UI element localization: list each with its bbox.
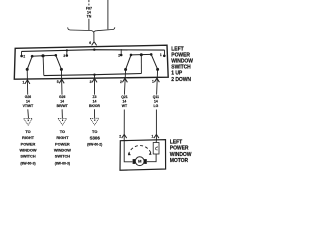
svg-text:Z3: Z3 <box>93 95 97 99</box>
wire pin 1 down to motor <box>156 69 157 139</box>
svg-text:VT/WT: VT/WT <box>23 104 34 108</box>
svg-text:RIGHT: RIGHT <box>56 135 69 140</box>
off-page triangle to right switch <box>58 118 67 125</box>
svg-text:TO: TO <box>92 129 97 134</box>
left power window motor box <box>120 140 166 171</box>
svg-text:6: 6 <box>89 41 91 45</box>
pivot B <box>60 68 63 71</box>
svg-text:LG: LG <box>154 104 159 108</box>
label F87 14 TN <box>86 6 92 18</box>
label Q11 14 LG <box>153 95 159 108</box>
svg-text:14: 14 <box>123 100 127 104</box>
switch blade C <box>126 55 131 70</box>
contact dot left (position 2) <box>20 55 23 58</box>
contact dot <box>55 54 58 57</box>
svg-text:SWITCH: SWITCH <box>171 65 191 71</box>
wire bus right end drop <box>163 50 165 54</box>
svg-text:WINDOW: WINDOW <box>54 148 71 153</box>
svg-text:2: 2 <box>118 54 120 58</box>
wire motor lead right <box>147 154 156 162</box>
label Q21 14 WT <box>121 95 128 108</box>
svg-text:2: 2 <box>119 135 121 139</box>
pivot D <box>156 68 159 71</box>
connector arrow pin 2 <box>122 78 127 82</box>
svg-text:MOTOR: MOTOR <box>170 158 189 164</box>
switch blade D <box>151 54 157 69</box>
label TO S306 (8W-60-2) <box>87 129 102 147</box>
wire left contact row <box>31 55 56 56</box>
wire pin 5 down <box>61 69 62 118</box>
svg-text:3: 3 <box>63 54 65 58</box>
wire pin 3 down (ground) <box>94 75 96 119</box>
connector arrow pin 5 <box>59 79 64 83</box>
rotation arc (dashed, double arrow) <box>128 146 151 155</box>
contact dot <box>31 55 34 58</box>
svg-text:2 DOWN: 2 DOWN <box>171 77 191 83</box>
brush right <box>144 159 147 164</box>
svg-text:1: 1 <box>23 81 25 85</box>
label TO RIGHT POWER WINDOW SWITCH (8W-60-3) <box>19 129 36 166</box>
wire brace stem to switch <box>93 32 95 41</box>
svg-text:BR/WT: BR/WT <box>57 104 69 108</box>
label TO RIGHT POWER WINDOW SWITCH (8W-60-3) <box>54 129 71 166</box>
svg-text:WT: WT <box>122 104 128 108</box>
motor M1 <box>135 157 144 166</box>
connector arrow pin 1 <box>25 80 30 84</box>
svg-text:LEFT: LEFT <box>171 46 183 52</box>
circuit breaker in motor <box>155 140 157 143</box>
svg-text:M: M <box>138 159 142 164</box>
svg-text:3: 3 <box>90 80 92 84</box>
node bus junction above contact 3 <box>66 49 68 51</box>
contact dot <box>150 53 153 56</box>
svg-text:WINDOW: WINDOW <box>19 148 36 153</box>
contact dot 3 <box>66 54 69 57</box>
contact dot (center with riser) <box>41 54 44 57</box>
label LEFT POWER WINDOW SWITCH 1 UP 2 DOWN <box>171 46 193 83</box>
node feed junction on bus <box>93 49 95 51</box>
svg-text:POWER: POWER <box>171 52 190 58</box>
svg-text:(8W-60-3): (8W-60-3) <box>20 161 35 165</box>
off-page triangle to splice <box>90 118 99 125</box>
connector arrow pin 1 <box>154 78 159 82</box>
switch blade B <box>56 55 62 69</box>
svg-text:RIGHT: RIGHT <box>22 135 35 140</box>
contact dot (center with riser) <box>140 53 143 56</box>
wire (solid, top right) <box>107 0 109 29</box>
label G26 14 BR/WT <box>57 95 69 108</box>
contact dot <box>130 54 133 57</box>
label G26 14 VT/WT <box>23 95 34 108</box>
wire riser left to ground rail <box>42 56 45 76</box>
svg-text:BK/OR: BK/OR <box>89 104 100 108</box>
svg-text:1: 1 <box>152 80 154 84</box>
ground rail wire <box>44 74 142 76</box>
svg-text:G26: G26 <box>59 95 66 99</box>
svg-text:WINDOW: WINDOW <box>170 152 192 158</box>
svg-text:TO: TO <box>25 129 30 134</box>
brush left <box>133 159 136 164</box>
svg-text:Q21: Q21 <box>121 95 128 99</box>
contact dot right (position 1) <box>163 55 166 58</box>
contact dot right switch (position 2) <box>120 54 123 57</box>
wire riser right to ground rail <box>140 55 142 74</box>
wire stub to contact 3 <box>66 50 68 54</box>
svg-text:POWER: POWER <box>170 146 189 152</box>
wire pin 2 down to motor <box>124 70 125 141</box>
svg-text:POWER: POWER <box>21 141 36 146</box>
label LEFT POWER WINDOW MOTOR <box>170 140 192 164</box>
wire motor lead left <box>124 140 132 162</box>
brace joining feed wires <box>68 27 115 32</box>
switch blade A <box>27 56 32 69</box>
svg-text:TN: TN <box>87 14 92 18</box>
left power window switch box <box>14 45 168 79</box>
svg-text:S306: S306 <box>90 135 101 140</box>
connector arrow motor pin 1 <box>154 134 159 138</box>
wire F87 continues to brace <box>88 19 90 30</box>
wire pin 1 down <box>27 69 28 118</box>
pivot A <box>26 68 29 71</box>
svg-text:1: 1 <box>160 53 162 57</box>
connector arrow pin 3 <box>92 78 97 82</box>
connector arrow into switch (pin 6) <box>92 42 97 46</box>
svg-text:TO: TO <box>60 129 65 134</box>
svg-text:5: 5 <box>57 80 59 84</box>
svg-text:SWITCH: SWITCH <box>55 154 71 159</box>
svg-text:POWER: POWER <box>55 141 70 146</box>
connector arrow motor pin 2 <box>122 134 127 138</box>
svg-text:2: 2 <box>120 80 122 84</box>
svg-text:LEFT: LEFT <box>170 140 182 146</box>
svg-text:Q11: Q11 <box>153 95 159 99</box>
svg-text:(8W-60-2): (8W-60-2) <box>87 142 102 146</box>
svg-text:14: 14 <box>60 100 64 104</box>
svg-text:1: 1 <box>152 135 154 139</box>
label Z3 14 BK/OR <box>89 95 100 108</box>
svg-text:(8W-60-3): (8W-60-3) <box>55 161 70 165</box>
svg-text:SWITCH: SWITCH <box>20 154 36 159</box>
svg-text:2: 2 <box>23 55 25 59</box>
svg-text:14: 14 <box>26 100 30 104</box>
wire F87 feed (dashed, top) <box>88 0 90 5</box>
bus wire (feed rail) <box>22 50 165 52</box>
svg-text:G26: G26 <box>25 95 32 99</box>
svg-text:14: 14 <box>154 100 158 104</box>
svg-text:WINDOW: WINDOW <box>171 59 193 65</box>
node ground rail junction <box>93 74 95 76</box>
off-page triangle to right switch <box>24 118 33 125</box>
svg-text:1 UP: 1 UP <box>171 71 183 77</box>
pivot C <box>124 68 127 71</box>
wire stub to right contact 2 <box>120 49 122 54</box>
wire right contact row <box>131 53 151 56</box>
svg-text:14: 14 <box>93 100 97 104</box>
wire bus left end drop <box>21 51 23 55</box>
